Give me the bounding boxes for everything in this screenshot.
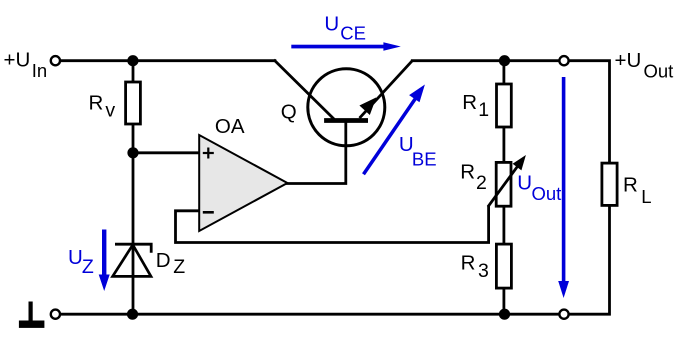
arrow UCE (blue, collector-emitter voltage): [291, 42, 401, 51]
svg-text:BE: BE: [412, 148, 437, 169]
svg-text:L: L: [641, 186, 651, 207]
svg-text:Z: Z: [173, 256, 185, 278]
node junction top-left (Rv/top rail): [127, 55, 138, 66]
svg-text:In: In: [32, 60, 47, 81]
svg-text:R: R: [462, 91, 477, 114]
svg-text:OA: OA: [215, 115, 245, 138]
transistor Q1 emitter arrowhead: [360, 98, 375, 114]
wire RL bottom to bottom rail: [568, 205, 609, 314]
svg-text:R: R: [460, 161, 475, 184]
svg-text:Out: Out: [532, 183, 562, 204]
svg-text:D: D: [156, 249, 171, 272]
svg-text:1: 1: [478, 99, 489, 121]
svg-text:Q: Q: [281, 101, 297, 124]
wire divider top: [502, 61, 505, 84]
wire from +UOut terminal to RL branch top: [568, 61, 609, 163]
wire top rail left from +UIn terminal to bend: [60, 59, 275, 62]
wire op-amp output to transistor base: [287, 123, 345, 184]
resistor RL body: [602, 163, 617, 205]
terminal ground-right open circle: [559, 310, 568, 319]
svg-text:R: R: [461, 252, 476, 275]
resistor Rv body: [126, 82, 141, 124]
wire node A to op-amp + input: [133, 151, 199, 154]
svg-text:R: R: [89, 92, 104, 115]
op-amp + input symbol: [203, 148, 214, 159]
svg-text:CE: CE: [340, 23, 366, 44]
arrow UBE (blue, base-emitter voltage): [364, 85, 425, 175]
op-amp U1 triangle: [199, 135, 287, 231]
resistor R3 body: [496, 244, 511, 288]
arrow UOut (blue, output voltage, long): [558, 77, 569, 298]
wire top rail right from emitter bend to output terminal: [412, 59, 559, 62]
svg-text:v: v: [105, 99, 115, 121]
wire op-amp - input step to feedback rail: [176, 207, 489, 243]
wire node A to zener cathode: [132, 153, 135, 244]
resistor R2 wiper arrow: [488, 166, 518, 207]
node junction top-right (divider/top rail): [499, 55, 510, 66]
wire Rv top: [132, 61, 135, 82]
resistor R2 body (potentiometer): [496, 162, 511, 206]
wire zener anode to bottom rail: [132, 244, 135, 314]
svg-text:U: U: [324, 12, 339, 35]
wire bottom rail: [60, 313, 560, 316]
wire collector diagonal into transistor: [275, 61, 333, 119]
transistor Q1 circle: [308, 69, 385, 146]
zener diode Dz triangle: [113, 245, 151, 277]
ground symbol: [19, 302, 45, 328]
svg-text:U: U: [517, 171, 532, 194]
svg-text:Z: Z: [82, 256, 94, 278]
svg-text:3: 3: [478, 260, 489, 282]
wire R3 to bottom rail: [502, 288, 505, 314]
node junction bottom-right (R3/bottom rail): [499, 309, 510, 320]
terminal +UOut open circle: [559, 56, 568, 65]
zener diode Dz cathode bar: [115, 244, 151, 253]
wire R1 to R2: [502, 127, 505, 162]
svg-text:R: R: [623, 173, 638, 196]
wire Rv bottom to node A: [132, 124, 135, 153]
node junction A (Rv/zener/opamp+): [127, 147, 138, 158]
svg-text:Out: Out: [644, 61, 674, 82]
svg-text:2: 2: [476, 172, 487, 194]
terminal ground-left open circle: [51, 310, 60, 319]
arrow UZ (blue, zener voltage): [99, 230, 110, 292]
wire R2 to R3: [502, 206, 505, 244]
op-amp - input symbol: [203, 211, 214, 214]
svg-text:+U: +U: [615, 49, 642, 72]
svg-text:+U: +U: [4, 48, 31, 71]
transistor Q1 emitter wire: [360, 61, 413, 118]
svg-text:U: U: [68, 246, 83, 269]
resistor R1 body: [497, 84, 512, 127]
terminal +UIn open circle: [51, 56, 60, 65]
node junction bottom-left (zener/bottom rail): [127, 309, 138, 320]
transistor Q1 base bar: [324, 118, 368, 123]
